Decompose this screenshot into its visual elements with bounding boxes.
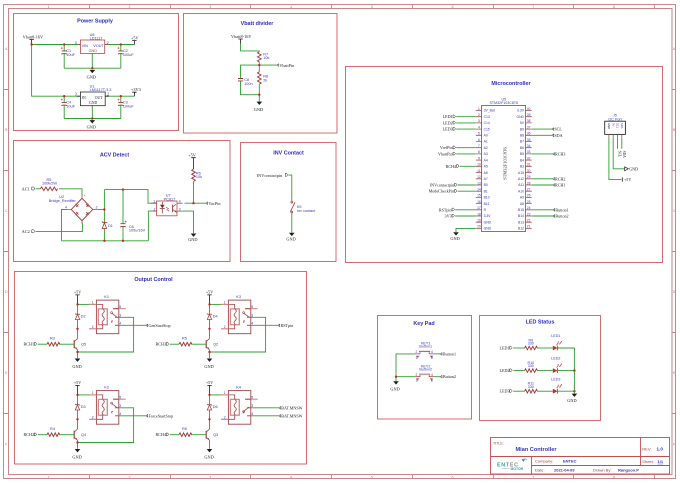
svg-text:LED2: LED2 (499, 368, 509, 373)
section box LED Status (480, 316, 601, 421)
svg-text:GND: GND (484, 220, 492, 224)
wire AC1 to R5 (36, 188, 41, 190)
svg-text:C13: C13 (484, 115, 490, 119)
section box Vbatt divider (184, 14, 338, 134)
svg-text:IN: IN (82, 96, 86, 100)
svg-text:5: 5 (251, 305, 253, 309)
svg-text:RCH1: RCH1 (555, 183, 565, 188)
svg-text:VOUT: VOUT (93, 44, 104, 48)
wire junction to VbattPin (259, 64, 277, 66)
wire junction to GND (258, 95, 260, 102)
U5 pin names left (484, 109, 495, 231)
svg-text:-: - (84, 223, 85, 227)
wire +5V to relay K4 pin1 (210, 394, 222, 396)
capacitor C8 100n (238, 78, 253, 86)
connector J5 I2C Port (605, 114, 626, 138)
svg-text:39: 39 (527, 113, 531, 117)
wire LED1 to U5 pin 2 (456, 116, 476, 118)
wire RCH1 to base resistor (38, 343, 47, 345)
global label BAT.MNSW second (279, 413, 303, 418)
wire LED3 to U5 pin 4 (456, 128, 476, 130)
svg-text:Microcontroller: Microcontroller (491, 81, 531, 87)
svg-text:1: 1 (92, 391, 94, 395)
svg-text:D: D (673, 290, 676, 294)
relay K3 (221, 295, 258, 334)
regulator U8 LD1117 (75, 33, 109, 54)
svg-text:3: 3 (431, 379, 433, 383)
wire R8 top (258, 65, 260, 72)
resistor R8 2k (258, 72, 269, 84)
global label RCH3 (156, 342, 169, 347)
svg-text:+5V: +5V (624, 177, 631, 182)
svg-text:10k: 10k (196, 175, 202, 179)
svg-text:C14: C14 (484, 121, 490, 125)
global label 3V3 (445, 214, 455, 219)
svg-text:LED3: LED3 (443, 127, 453, 132)
svg-text:LED1: LED1 (551, 334, 560, 338)
svg-text:INVcontactpin: INVcontactpin (430, 183, 454, 188)
LED LED2 (551, 357, 562, 373)
svg-text:Rangson.P: Rangson.P (618, 468, 639, 473)
svg-text:+5V: +5V (74, 380, 81, 385)
svg-text:Button1: Button1 (443, 351, 456, 356)
svg-text:R5: R5 (182, 337, 187, 341)
wire collector Q4 (77, 419, 79, 429)
global label VacPin (206, 201, 222, 206)
transistor Q4 (74, 429, 86, 440)
svg-text:7: 7 (478, 144, 480, 148)
svg-text:Date:: Date: (535, 467, 545, 472)
svg-text:2: 2 (129, 476, 131, 480)
section box ACV Detect (14, 141, 231, 262)
wire collector Q3 (209, 419, 211, 429)
svg-text:26: 26 (527, 194, 531, 198)
svg-text:20: 20 (477, 225, 481, 229)
svg-text:A0: A0 (484, 134, 488, 138)
global label LED1 (499, 346, 512, 351)
svg-text:STM32F103C8T6: STM32F103C8T6 (502, 146, 507, 179)
svg-text:D3: D3 (81, 405, 86, 409)
wire U5 pin 33 to RCH3 (532, 153, 553, 155)
zener diode D4 (207, 314, 218, 320)
svg-text:TITLE:: TITLE: (493, 442, 504, 446)
svg-text:A15: A15 (518, 171, 524, 175)
svg-text:5V: 5V (611, 123, 615, 126)
wire U5 pin 24 to Button1 (532, 209, 553, 211)
section box Power Supply (14, 14, 179, 131)
svg-text:4: 4 (431, 373, 433, 377)
ground Q3 (204, 449, 213, 459)
push button KEY2 Button2 (416, 364, 434, 382)
power flag +3V3 (131, 87, 141, 96)
svg-text:B14: B14 (518, 214, 524, 218)
wire switch to GND (291, 213, 293, 233)
svg-text:100n: 100n (244, 82, 252, 86)
svg-text:4: 4 (251, 321, 253, 325)
LED LED1 (551, 334, 562, 350)
global label RCH4 (446, 164, 459, 169)
svg-text:6: 6 (478, 138, 480, 142)
wire LED2 to resistor R10 (513, 370, 524, 372)
wire R11 to LED (537, 390, 553, 392)
global label SDA (552, 133, 563, 138)
wire VbattPin to U5 pin 8 (456, 153, 476, 155)
svg-text:GND: GND (72, 454, 81, 459)
svg-text:10uF: 10uF (66, 104, 75, 108)
svg-text:Button2: Button2 (443, 374, 456, 379)
svg-text:10: 10 (477, 163, 481, 167)
svg-text:5: 5 (119, 305, 121, 309)
svg-text:GenStartStop: GenStartStop (149, 323, 171, 328)
wire LED3 to resistor R11 (513, 390, 524, 392)
svg-text:A4: A4 (484, 158, 488, 162)
svg-text:34: 34 (527, 144, 531, 148)
svg-text:Vbatt8-16V: Vbatt8-16V (23, 34, 44, 39)
svg-text:5: 5 (371, 476, 373, 480)
svg-text:GND: GND (286, 236, 295, 241)
wire C1 branches (63, 45, 65, 69)
svg-text:D6: D6 (213, 405, 218, 409)
frame column ticks bottom (90, 475, 655, 479)
svg-text:Q4: Q4 (81, 433, 86, 437)
svg-text:A8: A8 (520, 202, 524, 206)
ground LED status (567, 394, 577, 403)
svg-text:B7: B7 (520, 140, 524, 144)
wire VrefPin to U5 pin 7 (456, 147, 476, 149)
relay K1 (89, 295, 126, 334)
svg-text:B12: B12 (518, 227, 524, 231)
svg-text:K3: K3 (236, 295, 241, 299)
svg-text:GND: GND (254, 107, 263, 112)
svg-text:AC2: AC2 (22, 229, 30, 234)
wire emitter to GND Q2 (209, 350, 211, 359)
svg-text:+: + (84, 194, 86, 198)
ground U5 (450, 232, 459, 241)
capacitor C4 10uF (61, 99, 76, 109)
svg-text:A12: A12 (518, 177, 524, 181)
svg-text:13: 13 (477, 181, 481, 185)
svg-text:Vbatt divider: Vbatt divider (241, 21, 275, 27)
power flag +5V ACV (188, 152, 197, 169)
svg-text:LM1117T-3.3: LM1117T-3.3 (90, 88, 112, 92)
global label Button1 (553, 207, 569, 212)
svg-text:2: 2 (416, 350, 418, 354)
svg-text:INV Contact: INV Contact (273, 151, 304, 157)
U5 pin stubs left (476, 111, 482, 229)
global label RSTpin (278, 323, 293, 328)
svg-text:C15: C15 (484, 127, 490, 131)
svg-text:330: 330 (528, 342, 534, 346)
svg-text:AC1: AC1 (22, 186, 30, 191)
svg-text:LED2: LED2 (551, 357, 560, 361)
svg-text:27: 27 (527, 188, 531, 192)
wire top rail to U8 (32, 44, 81, 46)
global label LED3 (443, 127, 456, 132)
svg-text:12: 12 (477, 175, 481, 179)
svg-text:K2: K2 (104, 385, 109, 389)
title block texts (493, 442, 664, 473)
junction dots K1 (76, 303, 78, 353)
svg-text:4: 4 (290, 476, 292, 480)
ground below U1 (87, 120, 96, 129)
power flag +5V K2 (74, 380, 81, 395)
svg-text:3: 3 (179, 207, 181, 211)
wire U5 pin 36 to SDA (532, 134, 552, 136)
svg-text:STM32F103C8T6: STM32F103C8T6 (490, 101, 519, 105)
global label LED1 (443, 114, 456, 119)
wire J5 pin4 SDA (621, 138, 623, 149)
svg-text:3: 3 (251, 313, 253, 317)
svg-text:8: 8 (613, 476, 615, 480)
svg-text:22: 22 (527, 219, 531, 223)
svg-text:+5V: +5V (74, 290, 81, 295)
wire RCH4 to base resistor (170, 434, 179, 436)
wire relay K4 pin3 to output (251, 407, 279, 409)
svg-text:INVcontactpin: INVcontactpin (257, 173, 283, 178)
wire bottom rail upper (64, 67, 121, 69)
svg-text:RCH2: RCH2 (24, 432, 34, 437)
junction dots K3 (208, 303, 210, 353)
wire U1 GND stub (91, 106, 93, 119)
svg-text:6: 6 (452, 5, 454, 9)
relay K2 (89, 385, 126, 424)
zener diode D1 (102, 222, 113, 229)
global label VbattPin (438, 151, 455, 156)
svg-text:D: D (5, 290, 8, 294)
svg-text:5: 5 (251, 395, 253, 399)
wire opto pin3 to GND (183, 211, 194, 233)
wire J5 pin1 to +5V (609, 138, 621, 180)
svg-text:16: 16 (477, 200, 481, 204)
U5 pin numbers left (477, 107, 481, 229)
svg-text:A10: A10 (518, 189, 524, 193)
wire bus to GND (573, 391, 575, 393)
junction dots Vbatt divider (258, 64, 260, 96)
svg-text:K4: K4 (236, 385, 241, 389)
push button KEY1 Button1 (416, 342, 434, 360)
ground Q4 (72, 449, 81, 459)
svg-text:Vbatt8-16V: Vbatt8-16V (231, 34, 252, 39)
wire C3 branches (120, 96, 122, 118)
capacitor C3 100uF (118, 99, 135, 109)
svg-text:32: 32 (527, 156, 531, 160)
wire label to switch (288, 175, 292, 201)
wire LED LED2 to bus (558, 370, 575, 372)
svg-text:LED2: LED2 (443, 120, 453, 125)
svg-text:10uF: 10uF (66, 53, 75, 57)
svg-text:Company:: Company: (535, 459, 553, 464)
svg-text:1: 1 (416, 379, 418, 383)
svg-text:36: 36 (527, 132, 531, 136)
svg-text:4: 4 (290, 5, 292, 9)
svg-text:GND: GND (72, 364, 81, 369)
svg-text:GND: GND (567, 398, 576, 403)
base wire Q3 (191, 434, 206, 436)
svg-text:SDA: SDA (620, 123, 624, 129)
regulator U1 LM1117T-3.3 (75, 85, 112, 106)
wire junction to C8 (241, 65, 260, 95)
section box Output Control (15, 272, 307, 465)
wire +5V to relay K2 pin1 (78, 394, 90, 396)
wire flag to R7 (241, 44, 260, 52)
svg-text:1: 1 (48, 476, 50, 480)
svg-text:19: 19 (477, 219, 481, 223)
wire bridge left corner to bottom rail (62, 210, 67, 241)
wire U5 pin 37 to SCL (532, 128, 552, 130)
svg-text:A11: A11 (518, 183, 524, 187)
svg-text:2: 2 (107, 41, 109, 45)
wire emitter to GND Q5 (77, 350, 79, 359)
wire bottom rail ACV (62, 240, 149, 242)
svg-text:31: 31 (527, 163, 531, 167)
wire LED2 to U5 pin 3 (456, 122, 476, 124)
base wire Q2 (191, 343, 206, 345)
company logo ENTEC (497, 458, 527, 471)
global label AC1 (22, 186, 35, 191)
svg-text:Button1: Button1 (419, 345, 432, 349)
svg-text:2: 2 (478, 113, 480, 117)
svg-text:18: 18 (477, 212, 481, 216)
relay K4 (221, 385, 258, 424)
wire C2 branches (120, 45, 122, 69)
svg-text:GND: GND (484, 227, 492, 231)
wire U8 out to +5V (105, 44, 135, 46)
svg-text:17: 17 (477, 206, 481, 210)
svg-text:VbattPin: VbattPin (279, 63, 295, 68)
svg-text:Button1: Button1 (555, 207, 568, 212)
global label ForceStartStop (146, 413, 173, 418)
svg-text:100u/16V: 100u/16V (129, 229, 146, 233)
svg-text:1: 1 (92, 301, 94, 305)
svg-text:RCH4: RCH4 (156, 432, 166, 437)
wire U5 pin 29 to RCH2 (532, 178, 553, 180)
capacitor C1 10uF (61, 47, 76, 57)
svg-text:2: 2 (107, 93, 109, 97)
wire 3V3 to U5 pin 18 (455, 215, 476, 217)
power flag +5V K1 (74, 290, 81, 305)
svg-text:SDA: SDA (554, 133, 562, 138)
transistor Q5 (74, 339, 86, 350)
svg-text:40: 40 (527, 107, 531, 111)
junction dots LED bus (573, 369, 575, 392)
svg-text:3: 3 (478, 119, 480, 123)
svg-text:38: 38 (527, 119, 531, 123)
svg-text:Key Pad: Key Pad (413, 321, 434, 327)
svg-text:ForceStartStop: ForceStartStop (149, 413, 174, 418)
svg-text:Mian Controller: Mian Controller (516, 447, 558, 453)
svg-text:VacPin: VacPin (208, 201, 221, 206)
svg-text:GND: GND (89, 49, 98, 53)
power flag +5V K4 (206, 380, 213, 395)
resistor R7 10k (258, 52, 270, 62)
svg-text:I2C Port: I2C Port (608, 117, 621, 121)
global label SCL (552, 127, 562, 132)
svg-text:11: 11 (477, 169, 481, 173)
section box INV Contact (241, 143, 337, 262)
svg-text:MOTOR: MOTOR (511, 467, 524, 471)
svg-text:30: 30 (527, 169, 531, 173)
svg-text:3: 3 (251, 404, 253, 408)
svg-text:1: 1 (224, 391, 226, 395)
svg-text:SCL: SCL (616, 123, 620, 129)
ground Vbatt divider (254, 102, 263, 112)
svg-text:2: 2 (224, 325, 226, 329)
svg-text:Power Supply: Power Supply (77, 19, 113, 25)
power flag Vbatt8-16V (23, 34, 44, 44)
wire +5V to relay K3 pin1 (210, 303, 222, 305)
wire diode branch D2 (77, 304, 79, 328)
svg-text:1.0: 1.0 (657, 447, 664, 452)
svg-text:3: 3 (431, 356, 433, 360)
svg-text:24: 24 (527, 206, 531, 210)
svg-text:2: 2 (92, 415, 94, 419)
svg-text:LED3: LED3 (499, 389, 509, 394)
wire collector Q5 (77, 329, 79, 339)
svg-text:GND: GND (516, 115, 524, 119)
svg-text:A5: A5 (484, 165, 488, 169)
microcontroller U5 STM32F103C8T6 body (482, 97, 526, 231)
svg-text:B8: B8 (520, 134, 524, 138)
wire diode branch D6 (209, 395, 211, 419)
wire R8 bottom (258, 84, 260, 95)
svg-text:330: 330 (528, 385, 534, 389)
svg-text:RCH2: RCH2 (555, 176, 565, 181)
wire relay K4 pin4 to output (251, 415, 279, 417)
global label Button2 (440, 374, 456, 379)
svg-text:2021-04-09: 2021-04-09 (554, 467, 575, 472)
svg-text:GND: GND (89, 101, 97, 105)
wire DC plus vertical with D1 (103, 190, 105, 241)
svg-text:1: 1 (48, 5, 50, 9)
svg-text:33: 33 (527, 150, 531, 154)
wire LED LED1 to bus (558, 347, 575, 349)
svg-text:REV:: REV: (642, 446, 651, 451)
junction dots K2 (76, 394, 78, 444)
wire relay K2 pin3 loop to emitter (78, 408, 134, 443)
svg-text:14: 14 (477, 188, 481, 192)
svg-text:B13: B13 (518, 220, 524, 224)
svg-text:RCH1: RCH1 (24, 342, 34, 347)
wire RCH2 to base resistor (38, 434, 47, 436)
global label LED2 (443, 120, 456, 125)
svg-text:23: 23 (527, 212, 531, 216)
svg-text:2: 2 (416, 373, 418, 377)
svg-text:B4: B4 (520, 158, 524, 162)
resistor R5 100k/2W (41, 178, 58, 191)
svg-text:RSTpin: RSTpin (281, 323, 294, 328)
wire left rail down (32, 45, 81, 97)
svg-text:VbattPin: VbattPin (438, 151, 453, 156)
svg-text:PC817: PC817 (164, 197, 176, 201)
svg-text:4: 4 (179, 199, 181, 203)
svg-text:SDA: SDA (622, 151, 626, 159)
svg-text:5: 5 (478, 132, 480, 136)
global label VbattPin (277, 63, 295, 68)
wire diode branch D4 (209, 304, 211, 328)
svg-text:GND: GND (87, 125, 96, 130)
svg-text:LED Status: LED Status (526, 319, 555, 325)
wire C6 branches (122, 190, 124, 241)
wire relay K1 pin4 to output (119, 324, 146, 326)
ground Q5 (72, 359, 81, 369)
wire U8 GND stub (91, 53, 93, 68)
U5 pin stubs right (526, 111, 532, 229)
wire +5V to relay K1 pin1 (78, 303, 90, 305)
wire bridge right to DC plus node (97, 209, 104, 211)
svg-text:VrefPin: VrefPin (440, 145, 453, 150)
wire collector Q2 (209, 329, 211, 339)
global label Button1 (440, 351, 456, 356)
